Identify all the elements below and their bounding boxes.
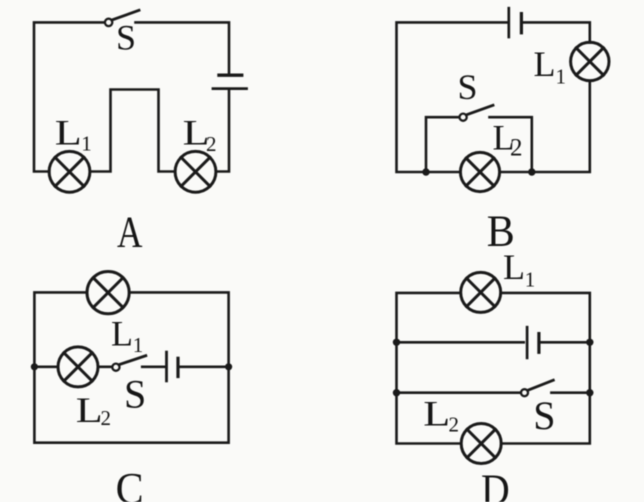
switch S blade (C) — [119, 356, 146, 365]
wire C between switch and battery — [142, 365, 165, 368]
wire C battery to right side — [180, 365, 229, 368]
junction dot D battery right — [586, 339, 593, 346]
svg-text:S: S — [124, 372, 146, 417]
battery short plate (A) — [219, 73, 242, 76]
junction dot C right — [225, 363, 232, 370]
svg-text:D: D — [481, 466, 510, 502]
switch S contact circle (D) — [521, 389, 528, 396]
lamp L2 (D) — [461, 424, 501, 464]
svg-text:1: 1 — [525, 267, 536, 291]
svg-text:S: S — [533, 393, 555, 438]
switch S contact circle (C) — [112, 364, 119, 371]
wire B right lower and bottom-right — [500, 81, 590, 172]
svg-text:2: 2 — [449, 413, 460, 437]
junction dot D switch left — [393, 389, 400, 396]
battery short plate (D) — [537, 334, 540, 353]
wire D switch branch right — [551, 391, 589, 394]
svg-text:L: L — [423, 394, 450, 434]
switch S blade (D) — [528, 380, 554, 390]
battery long plate (C) — [165, 352, 168, 381]
switch S contact circle (A) — [105, 19, 112, 26]
battery long plate (D) — [526, 327, 529, 358]
svg-text:L: L — [503, 247, 525, 287]
svg-text:C: C — [116, 464, 144, 502]
battery long plate (A) — [213, 87, 247, 90]
svg-text:L: L — [76, 390, 103, 430]
lamp L2 (A) — [175, 151, 216, 192]
wire D battery branch left — [397, 341, 524, 344]
wire C between lamp and switch — [98, 365, 112, 368]
wire B top-left, left side, bottom-left — [397, 22, 507, 172]
lamp L1 (A) — [49, 151, 90, 192]
wire A top-left and left side — [34, 22, 105, 171]
svg-text:L: L — [534, 44, 556, 84]
battery short plate (B) — [520, 14, 523, 33]
svg-text:1: 1 — [133, 333, 144, 357]
junction dot D switch right — [586, 389, 593, 396]
svg-text:A: A — [117, 208, 143, 257]
switch S blade (B) — [466, 105, 493, 115]
wire B top-right and right upper — [523, 22, 590, 42]
lamp L1 (B) — [571, 42, 609, 80]
junction dot B right — [528, 168, 535, 175]
junction dot D battery left — [393, 339, 400, 346]
wire D top-left, left side, bottom-left — [397, 293, 462, 444]
wire B switch branch left stub — [426, 117, 460, 172]
lamp L2 (B) — [460, 152, 499, 191]
lamp L1 (C) — [87, 272, 129, 314]
svg-text:S: S — [116, 17, 136, 57]
svg-text:L: L — [55, 113, 82, 153]
wire C middle branch left — [34, 365, 58, 368]
svg-text:2: 2 — [206, 132, 217, 156]
svg-text:1: 1 — [556, 64, 567, 88]
switch S blade (A) — [112, 10, 139, 20]
wire A top-right and right side upper — [136, 22, 230, 73]
wire C outer rectangle — [34, 292, 228, 442]
junction dot C left — [31, 363, 38, 370]
wire D switch branch left — [397, 391, 522, 394]
svg-text:1: 1 — [81, 132, 92, 156]
wire A middle bump — [90, 90, 175, 172]
wire D top-right, right side, bottom-right — [501, 293, 590, 444]
battery short plate (C) — [176, 358, 179, 376]
svg-text:2: 2 — [510, 135, 523, 162]
svg-text:L: L — [111, 313, 133, 353]
svg-text:S: S — [458, 67, 478, 107]
switch S contact circle (B) — [460, 114, 467, 121]
wire D battery branch right — [541, 341, 590, 344]
wire B switch branch right stub — [490, 117, 532, 172]
lamp L2 (C) — [58, 347, 98, 387]
battery long plate (B) — [507, 8, 510, 37]
junction dot B left — [422, 168, 429, 175]
wire A right side lower — [216, 90, 229, 172]
svg-text:2: 2 — [101, 406, 112, 430]
lamp L1 (D) — [461, 272, 501, 312]
